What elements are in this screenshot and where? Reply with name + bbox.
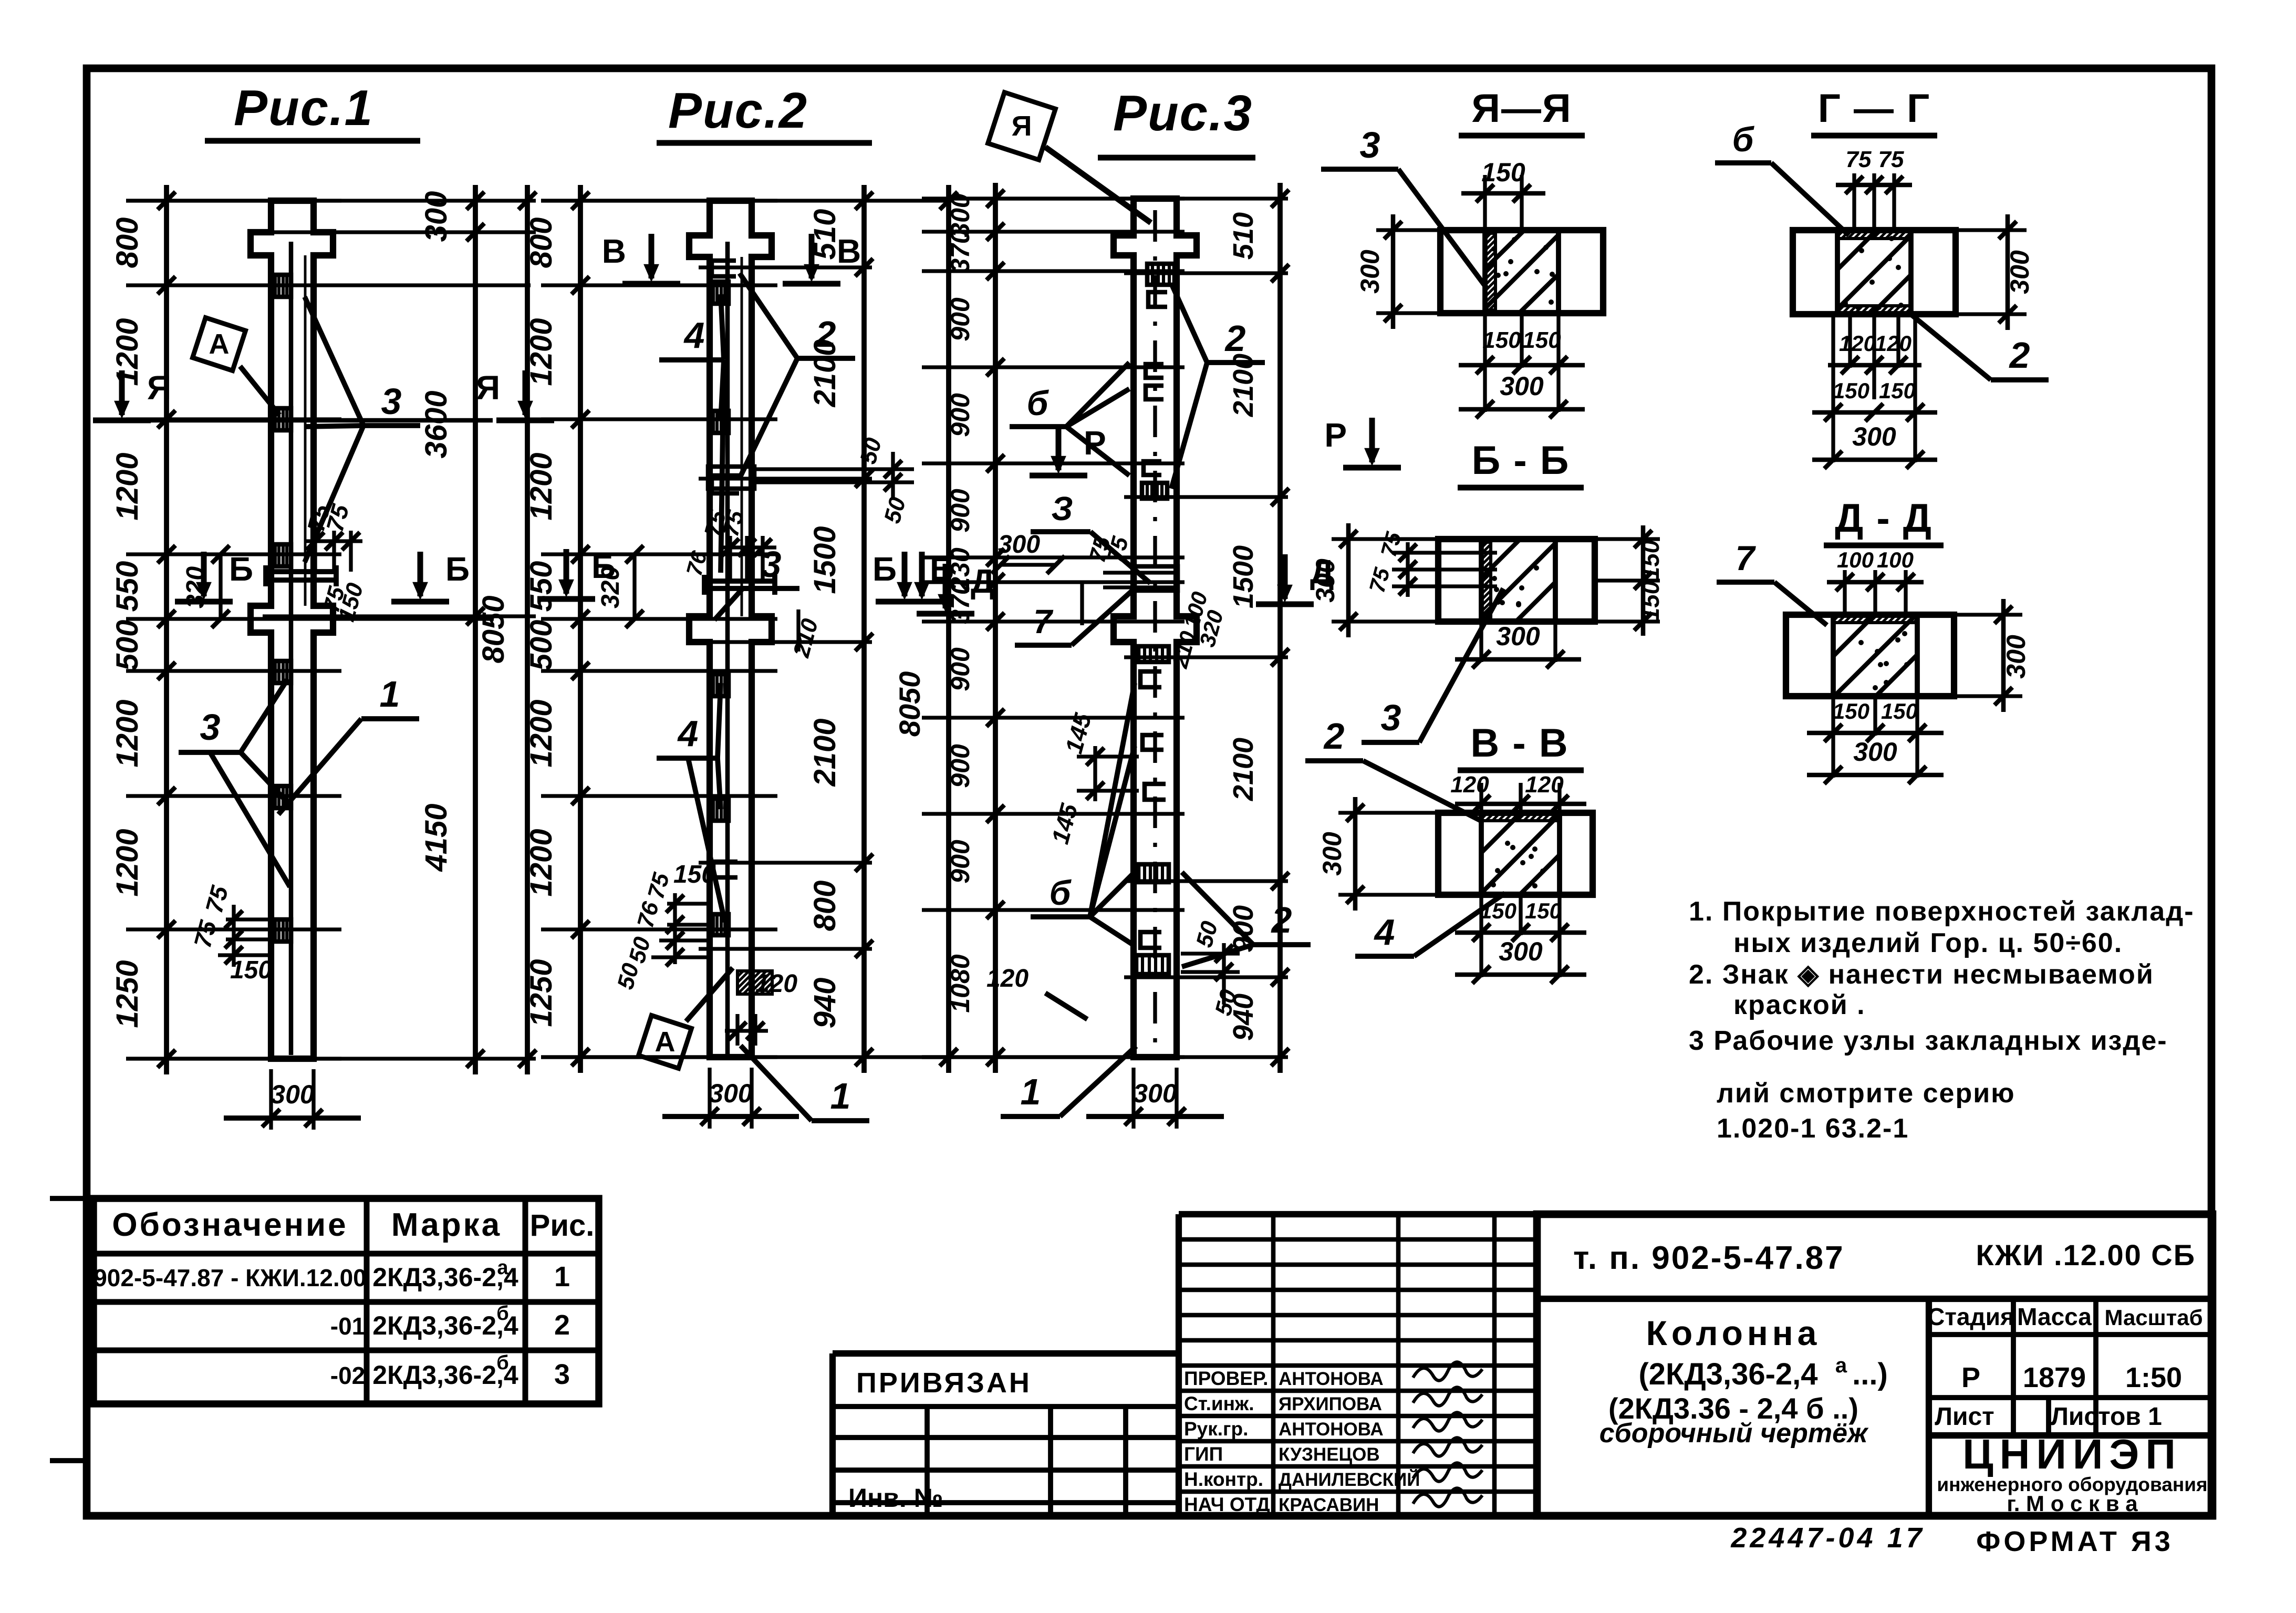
svg-text:Стадия: Стадия	[1927, 1303, 2014, 1330]
section Г-Г right dim 300	[1958, 228, 2027, 232]
svg-text:300: 300	[1355, 250, 1385, 294]
svg-text:2: 2	[1271, 899, 1292, 940]
svg-text:300: 300	[419, 191, 453, 242]
svg-text:75: 75	[1846, 147, 1872, 172]
svg-text:4: 4	[1374, 912, 1395, 953]
svg-text:120: 120	[1525, 772, 1564, 798]
title block stage mass scale	[1929, 1332, 2212, 1337]
svg-text:300: 300	[1853, 737, 1897, 767]
svg-text:150: 150	[1879, 378, 1916, 403]
title block signature grid	[1176, 1214, 1182, 1516]
svg-text:В - В: В - В	[1470, 721, 1568, 766]
svg-text:900: 900	[946, 393, 975, 437]
svg-text:120: 120	[1875, 331, 1911, 356]
figure 2 mid bolted joint	[704, 578, 775, 584]
svg-text:1: 1	[1021, 1071, 1041, 1112]
svg-text:1200: 1200	[524, 699, 558, 767]
figure 1 outer chain 8050	[525, 185, 530, 1074]
section Я-Я left dim 300	[1376, 228, 1440, 232]
svg-text:2: 2	[2009, 335, 2030, 376]
section Д-Д body	[1786, 615, 1954, 696]
svg-text:4150: 4150	[419, 803, 453, 872]
svg-text:500: 500	[110, 620, 144, 671]
figure 1 section mark Я right	[496, 418, 554, 423]
figure 3 joint detail dims	[1103, 571, 1177, 574]
figure 3 axis diamond Я with leader	[988, 92, 1056, 160]
svg-text:...): ...)	[1852, 1357, 1888, 1391]
section Б-Б body	[1438, 539, 1595, 622]
svg-text:300: 300	[2005, 250, 2034, 294]
figure 2 channel marks	[712, 261, 736, 276]
svg-text:22447-04 17: 22447-04 17	[1730, 1522, 1925, 1554]
figure 2 right chain 510 2100 1500 2100 800 940	[699, 265, 872, 269]
svg-text:1250: 1250	[524, 959, 558, 1027]
svg-text:Я: Я	[1012, 110, 1032, 142]
svg-text:КРАСАВИН: КРАСАВИН	[1279, 1495, 1379, 1515]
svg-text:Рис.2: Рис.2	[668, 82, 808, 139]
svg-text:1200: 1200	[110, 699, 144, 767]
figure 2 column outline	[689, 201, 772, 1057]
svg-text:3 Рабочие узлы закладных изде-: 3 Рабочие узлы закладных изде-	[1689, 1026, 2168, 1056]
svg-text:550: 550	[524, 561, 558, 612]
svg-text:2100: 2100	[1228, 738, 1259, 801]
svg-text:-02: -02	[330, 1362, 365, 1389]
svg-text:ЦНИИЭП: ЦНИИЭП	[1962, 1431, 2182, 1477]
figure 3 left dimension chain	[922, 197, 1185, 200]
svg-text:1500: 1500	[1228, 545, 1259, 608]
svg-text:В: В	[837, 232, 861, 270]
svg-text:150: 150	[1833, 699, 1869, 723]
svg-text:Я: Я	[147, 369, 171, 407]
svg-text:4: 4	[677, 713, 699, 754]
figure 3 joint box	[1135, 566, 1178, 591]
figure 2 bottom width dim 300	[708, 1068, 711, 1129]
svg-text:150: 150	[1482, 327, 1521, 353]
figure 1 right chain 300 3600 4150	[263, 230, 536, 234]
svg-text:Б - Б: Б - Б	[1472, 438, 1570, 483]
svg-text:краской .: краской .	[1733, 990, 1866, 1020]
section Г-Г bottom dims	[1848, 314, 1852, 368]
svg-text:800: 800	[524, 218, 558, 268]
figure 3 bottom width dim 300	[1131, 1068, 1135, 1129]
figure 2 sub dim 320	[632, 554, 636, 619]
svg-text:АНТОНОВА: АНТОНОВА	[1279, 1369, 1384, 1389]
figure 1 lower plate dims 75 75 150	[226, 917, 271, 921]
section В-В top dims 120 120	[1479, 783, 1483, 813]
specification table	[93, 1198, 599, 1404]
svg-text:Г — Г: Г — Г	[1818, 86, 1930, 131]
svg-text:КУЗНЕЦОВ: КУЗНЕЦОВ	[1279, 1444, 1380, 1465]
svg-text:150: 150	[1881, 699, 1918, 723]
svg-text:150: 150	[1522, 327, 1561, 353]
svg-text:Инв. №: Инв. №	[848, 1483, 943, 1513]
title block small grid left	[829, 1353, 836, 1516]
svg-text:-01: -01	[330, 1312, 365, 1340]
figure 1 sub dim 320	[219, 554, 222, 619]
svg-text:100: 100	[1837, 547, 1874, 572]
svg-text:800: 800	[808, 881, 842, 932]
svg-text:150: 150	[1637, 581, 1664, 621]
svg-text:ДАНИЛЕВСКИЙ: ДАНИЛЕВСКИЙ	[1279, 1469, 1420, 1490]
signatures	[1413, 1362, 1482, 1380]
svg-text:ПРОВЕР.: ПРОВЕР.	[1184, 1368, 1268, 1389]
svg-text:(2КД3,36-2,4: (2КД3,36-2,4	[1638, 1357, 1817, 1391]
section Я-Я bottom dims	[1483, 313, 1487, 368]
figure 2 section mark Б left	[537, 596, 595, 602]
svg-text:300: 300	[998, 531, 1040, 559]
svg-text:а: а	[1835, 1354, 1847, 1377]
svg-text:300: 300	[1496, 622, 1540, 651]
svg-text:150: 150	[1481, 158, 1525, 187]
svg-text:ЯРХИПОВА: ЯРХИПОВА	[1279, 1394, 1382, 1414]
section В-В left dim 300	[1338, 811, 1438, 814]
section Б-Б left dim 300	[1332, 537, 1438, 541]
svg-text:120: 120	[986, 965, 1028, 992]
svg-text:Масса: Масса	[2017, 1303, 2092, 1330]
svg-text:ПРИВЯЗАН: ПРИВЯЗАН	[856, 1367, 1032, 1399]
svg-text:500: 500	[524, 620, 558, 671]
svg-text:3600: 3600	[419, 390, 453, 458]
figure 1 section mark Б right	[391, 599, 449, 605]
figure 2 embedded plates	[710, 282, 729, 304]
svg-text:900: 900	[946, 647, 975, 691]
figure 3 dims 145 145	[1077, 754, 1139, 758]
svg-text:2: 2	[1224, 318, 1246, 359]
svg-text:г. М о с к в а: г. М о с к в а	[2007, 1491, 2138, 1516]
svg-text:120: 120	[1450, 772, 1489, 798]
svg-text:3: 3	[381, 381, 402, 422]
section Я-Я top dim 150	[1483, 175, 1487, 230]
svg-text:Рис.: Рис.	[530, 1208, 595, 1243]
svg-text:Ст.инж.: Ст.инж.	[1184, 1393, 1254, 1414]
svg-text:900: 900	[946, 489, 975, 533]
section Д-Д top dims 100 100	[1843, 570, 1846, 615]
figure 2 dim 120 bottom	[737, 978, 777, 1019]
svg-text:Марка: Марка	[391, 1207, 502, 1243]
svg-text:А: А	[209, 328, 230, 360]
svg-text:б: б	[1027, 384, 1050, 422]
title block main box	[1537, 1214, 2212, 1516]
svg-text:902-5-47.87 - КЖИ.12.00: 902-5-47.87 - КЖИ.12.00	[93, 1264, 367, 1291]
svg-text:300: 300	[2001, 635, 2031, 679]
svg-text:550: 550	[110, 561, 144, 612]
svg-text:300: 300	[1499, 937, 1543, 966]
svg-text:ФОРМАТ Я3: ФОРМАТ Я3	[1976, 1526, 2174, 1557]
svg-text:б: б	[496, 1352, 508, 1374]
section В-В bottom dims	[1479, 895, 1483, 977]
figure 1 section trace line Я-Я	[141, 418, 493, 423]
figure 1 embedded plates	[271, 275, 291, 297]
section Я-Я plate strip	[1485, 233, 1495, 310]
svg-text:З: З	[1051, 490, 1073, 528]
svg-text:2100: 2100	[808, 718, 842, 787]
svg-text:Рис.3: Рис.3	[1113, 85, 1253, 141]
svg-text:7: 7	[1033, 603, 1054, 640]
svg-text:лий смотрите серию: лий смотрите серию	[1717, 1078, 2016, 1109]
section Д-Д right dim 300	[1954, 613, 2022, 616]
svg-text:1879: 1879	[2023, 1362, 2086, 1393]
svg-text:3: 3	[761, 544, 782, 585]
figure 3 section marks Б Д left	[893, 599, 951, 605]
svg-text:3: 3	[1360, 125, 1380, 166]
svg-text:300: 300	[1317, 832, 1347, 876]
svg-text:1: 1	[554, 1261, 570, 1293]
figure 2 mid dashed joint P level	[708, 467, 754, 489]
svg-text:Б: Б	[229, 550, 253, 588]
figure 3 dims 50 50 lower	[1181, 952, 1240, 955]
svg-text:2. Знак ◈ нанести несмываемой: 2. Знак ◈ нанести несмываемой	[1689, 959, 2154, 990]
svg-text:т. п. 902-5-47.87: т. п. 902-5-47.87	[1573, 1240, 1845, 1276]
figure 1 joint dims 75 75 150	[313, 531, 317, 572]
figure 2 bottom plates	[710, 914, 729, 935]
section Г — Г body	[1793, 230, 1956, 314]
svg-text:1.020-1 63.2-1: 1.020-1 63.2-1	[1717, 1113, 1909, 1144]
svg-text:300: 300	[271, 1080, 315, 1109]
svg-text:150: 150	[673, 861, 715, 888]
title block sheet row	[1929, 1395, 2212, 1400]
figure 2 left dimension chain	[541, 199, 777, 202]
section Г-Г top dims 75 75	[1852, 173, 1856, 230]
figure 2 axis diamond А bottom	[639, 1016, 692, 1069]
svg-text:300: 300	[1133, 1079, 1177, 1108]
figure 2 lower-left small dims	[667, 902, 710, 905]
figure 1 mid bolted joint	[266, 569, 336, 574]
figure 1 axis diamond А	[193, 318, 246, 371]
figure 1 left dimension chain	[126, 199, 341, 202]
figure 3 embedded plates	[1147, 264, 1175, 285]
svg-text:1200: 1200	[110, 829, 144, 896]
svg-text:Я: Я	[476, 369, 500, 407]
figure 1 bottom width dim 300	[269, 1069, 273, 1130]
figure 3 section marks P	[1030, 473, 1087, 479]
svg-text:1. Покрытие поверхностей закла: 1. Покрытие поверхностей заклад-	[1689, 896, 2195, 927]
svg-text:510: 510	[1228, 212, 1259, 260]
svg-text:1:50: 1:50	[2125, 1362, 2182, 1393]
svg-text:100: 100	[1877, 547, 1914, 572]
section Я—Я body	[1440, 230, 1603, 313]
svg-text:900: 900	[946, 744, 975, 788]
svg-text:б: б	[1050, 873, 1072, 912]
figure 2 column inner line	[725, 242, 730, 1054]
svg-text:КЖИ .12.00 СБ: КЖИ .12.00 СБ	[1976, 1238, 2196, 1271]
svg-text:Рис.1: Рис.1	[234, 80, 373, 136]
svg-text:1250: 1250	[110, 960, 144, 1028]
svg-text:150: 150	[230, 956, 272, 984]
svg-text:Б: Б	[872, 550, 897, 588]
svg-text:Листов 1: Листов 1	[2051, 1403, 2162, 1431]
svg-text:а: а	[497, 1257, 508, 1279]
figure 1 column outline	[251, 201, 333, 1059]
svg-text:300: 300	[1311, 559, 1340, 603]
svg-text:1200: 1200	[524, 452, 558, 520]
figure 1 section mark Я left	[93, 418, 151, 423]
svg-text:120: 120	[1839, 331, 1876, 356]
svg-text:В: В	[602, 232, 626, 270]
svg-text:1200: 1200	[110, 318, 144, 386]
svg-text:А: А	[655, 1026, 676, 1058]
section Б-Б bottom dim 300	[1479, 622, 1483, 662]
svg-text:Р: Р	[1324, 416, 1347, 454]
svg-text:Р: Р	[1961, 1362, 1980, 1393]
fold mark lower	[50, 1458, 87, 1463]
svg-text:150: 150	[1637, 540, 1664, 580]
svg-text:300: 300	[1500, 371, 1544, 401]
svg-text:900: 900	[946, 297, 975, 342]
svg-text:2: 2	[554, 1309, 570, 1341]
figure 3 section mark Д right	[1256, 602, 1314, 607]
svg-text:ГИП: ГИП	[1184, 1443, 1223, 1465]
svg-text:370: 370	[946, 229, 975, 273]
svg-text:300: 300	[1852, 422, 1896, 451]
svg-text:Обозначение: Обозначение	[112, 1207, 348, 1243]
svg-text:1200: 1200	[524, 829, 558, 896]
svg-text:2: 2	[815, 314, 836, 355]
svg-text:Лист: Лист	[1935, 1403, 1994, 1431]
section Б-Б right dims 150 150	[1595, 537, 1660, 541]
svg-text:150: 150	[1833, 378, 1869, 403]
svg-text:1500: 1500	[808, 526, 842, 594]
svg-text:б: б	[496, 1302, 508, 1325]
svg-text:ных изделий Гор. ц. 50÷60.: ных изделий Гор. ц. 50÷60.	[1733, 928, 2123, 958]
svg-text:300: 300	[709, 1079, 753, 1108]
svg-text:АНТОНОВА: АНТОНОВА	[1279, 1419, 1384, 1440]
svg-text:3: 3	[200, 707, 221, 748]
svg-text:7: 7	[1736, 539, 1757, 577]
svg-text:150: 150	[1525, 898, 1562, 923]
section В-В body	[1438, 813, 1593, 895]
svg-text:150: 150	[1480, 898, 1516, 923]
svg-text:2: 2	[1323, 716, 1345, 757]
svg-text:1: 1	[830, 1076, 851, 1116]
svg-text:Б: Б	[591, 547, 616, 585]
section Б-Б left small dims 75 75	[1392, 551, 1497, 554]
svg-text:800: 800	[110, 218, 144, 268]
figure 1 column inner lines	[289, 242, 294, 1055]
svg-text:4: 4	[683, 315, 705, 356]
figure 2 section marks Б Д right	[876, 599, 933, 605]
figure 1 section mark Б left	[175, 599, 233, 605]
svg-text:1200: 1200	[524, 318, 558, 386]
figure 3 column centre dash line	[1153, 210, 1157, 1046]
svg-text:120: 120	[755, 970, 797, 998]
svg-text:75: 75	[1878, 147, 1904, 172]
section Г-Г plate strips	[1837, 230, 1911, 239]
svg-text:8050: 8050	[476, 595, 511, 663]
figure 3 right chain 510 2100 1500 2100 900 940	[1124, 271, 1288, 275]
svg-text:б: б	[1732, 120, 1755, 159]
svg-text:сборочный чертёж: сборочный чертёж	[1599, 1418, 1869, 1449]
svg-text:1: 1	[380, 674, 400, 715]
svg-text:940: 940	[808, 978, 842, 1029]
svg-text:Н.контр.: Н.контр.	[1184, 1469, 1263, 1490]
svg-text:1200: 1200	[110, 452, 144, 520]
section Д-Д bottom dims	[1831, 696, 1835, 778]
svg-text:3: 3	[1381, 697, 1401, 738]
figure 2 outer chain 8050	[946, 185, 951, 1073]
figure 3 column outline	[1114, 199, 1197, 1057]
svg-text:Рук.гр.: Рук.гр.	[1184, 1418, 1248, 1440]
svg-text:1080: 1080	[946, 954, 975, 1012]
svg-text:Р: Р	[1084, 424, 1106, 462]
svg-text:Б: Б	[445, 550, 470, 588]
svg-text:Д - Д: Д - Д	[1835, 496, 1933, 541]
svg-text:900: 900	[946, 840, 975, 884]
svg-text:Колонна: Колонна	[1646, 1314, 1821, 1352]
figure 3 channel marks	[1148, 292, 1167, 307]
svg-text:Я—Я: Я—Я	[1471, 86, 1572, 131]
figure 2 joint dims	[728, 536, 732, 581]
svg-text:Масштаб: Масштаб	[2104, 1305, 2203, 1330]
svg-text:2КД3,36-2,4: 2КД3,36-2,4	[372, 1263, 518, 1292]
figure 2 section marks В	[622, 281, 680, 287]
fold mark upper	[50, 1196, 87, 1201]
svg-text:8050: 8050	[893, 671, 926, 737]
svg-text:НАЧ ОТД: НАЧ ОТД	[1184, 1494, 1270, 1515]
svg-text:3: 3	[554, 1359, 570, 1390]
